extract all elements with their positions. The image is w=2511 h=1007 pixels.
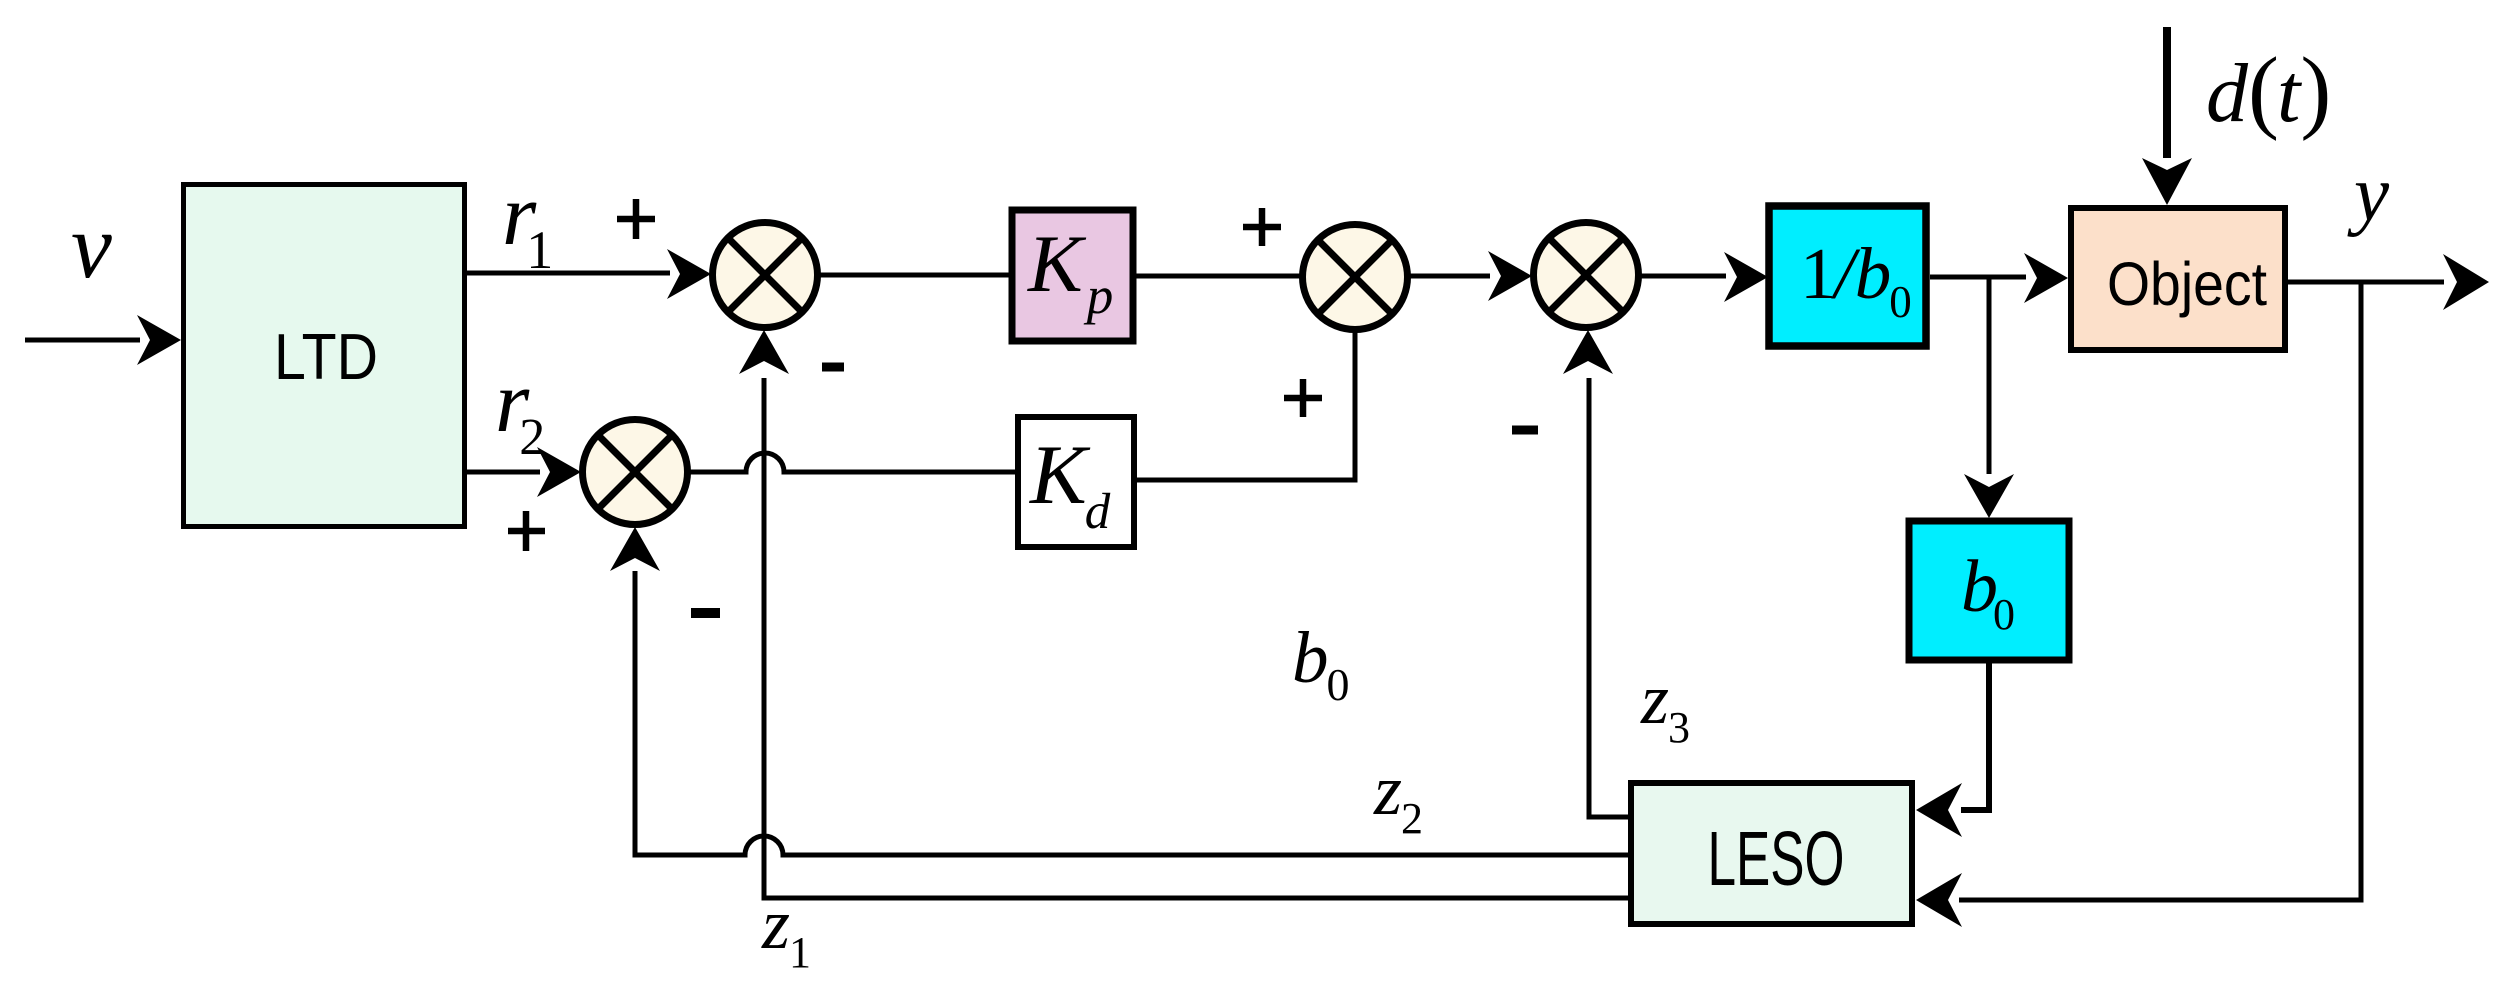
arrowhead into J4 left [1488,251,1532,301]
label plus left of Kd riser at J3 [1284,379,1322,417]
wire J1 to Kp [818,273,1009,278]
arrowhead r2 into J2 [537,447,581,497]
wire J3 to J4 [1408,274,1490,279]
label minus below-right of J1 [822,363,844,372]
wire J4 to 1/b0 [1639,274,1726,279]
block b0 [1909,521,2069,660]
arrowhead r1 into J1 [667,249,711,299]
wire z3 from LESO left up to J4 [1589,378,1631,817]
svg-text:LTD: LTD [274,320,378,393]
label plus below-left of J2 [508,511,545,551]
arrowhead v into LTD [137,315,181,365]
arrowhead into 1/b0 [1724,252,1768,302]
svg-text:r1: r1 [502,167,553,280]
wire Kd output up to J3 bottom [1132,330,1355,480]
arrowhead d(t) [2142,158,2192,205]
block LESO [1631,783,1912,924]
wire z2 from LESO left to J2 bottom [635,571,1631,855]
svg-text:d(t): d(t) [2206,39,2331,142]
summing junction J1 [713,223,818,328]
wire z1 from LESO left to J1 bottom [764,378,1631,898]
svg-text:Object: Object [2107,250,2267,318]
summing junction J4 [1534,223,1639,328]
block Kp [1012,210,1133,341]
block LTD [184,185,465,527]
block Object [2071,208,2285,350]
wire r2 LTD to J2 [467,470,540,475]
wire branch from 1/b0 output down to b0 [1987,277,1992,474]
wire b0 down and into LESO right [1961,658,1989,810]
wire Kp to J3 [1136,274,1302,279]
arrowhead b0 into LESO [1916,783,1962,837]
wire 1/b0 to Object [1930,275,2026,280]
arrowhead y into LESO [1916,873,1962,927]
arrowhead into b0 top [1964,474,2014,518]
svg-text:z2: z2 [1373,750,1423,843]
label plus at J3 left [1243,208,1281,246]
arrowhead z1 into J1 bottom [739,330,789,374]
wire v input [25,338,140,343]
arrowhead z2 into J2 bottom [610,527,660,571]
arrowhead y out [2443,254,2489,310]
wire r1 LTD to J1 [467,271,670,276]
label minus right of z2 arrow [691,608,720,618]
svg-text:b0: b0 [1292,617,1350,710]
label minus at J4 bottom [1512,426,1538,435]
wire Object output y [2285,280,2444,285]
summing junction J2 [583,420,688,525]
svg-text:r2: r2 [495,354,545,466]
wire y feedback down [1959,282,2361,900]
svg-text:v: v [71,195,112,297]
svg-text:y: y [2347,151,2390,238]
svg-text:z3: z3 [1640,659,1690,752]
svg-text:LESO: LESO [1708,816,1845,902]
arrowhead z3 into J4 bottom [1563,330,1613,374]
block 1/b0 [1769,206,1926,346]
label plus at J1 left [617,199,655,239]
wire J2 to Kd with hop over z1 vertical [688,453,1017,472]
summing junction J3 [1303,225,1408,330]
arrowhead into Object [2024,253,2068,303]
block Kd [1018,417,1134,547]
wire d(t) into Object [2163,27,2171,158]
